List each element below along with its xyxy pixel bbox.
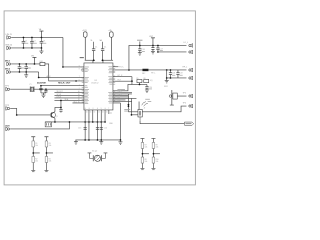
wire HP lower to jack xyxy=(167,77,187,79)
wire U1 right INT xyxy=(113,97,137,99)
capacitor C21 xyxy=(151,45,154,51)
oscillator X2 xyxy=(88,153,108,162)
svg-text:C1: C1 xyxy=(25,41,27,43)
capacitor C4 xyxy=(18,64,22,72)
pin stub U1 right HP xyxy=(113,69,143,71)
resistor chain R9 xyxy=(151,138,160,169)
wire J6 to Q1 base xyxy=(10,108,50,115)
junction dot HP corner xyxy=(128,69,130,71)
wire net LINEIN_R xyxy=(11,47,41,49)
svg-text:FILT+: FILT+ xyxy=(119,66,124,68)
svg-text:AIN2: AIN2 xyxy=(46,75,50,78)
ferrite bead FB1 xyxy=(40,62,45,65)
svg-text:C3: C3 xyxy=(43,41,45,43)
wire SDA xyxy=(54,99,83,101)
label bottom pin 7 xyxy=(110,112,112,115)
svg-text:0.1: 0.1 xyxy=(95,47,98,49)
pin stub U1 top VD xyxy=(92,60,94,63)
wire MICIN2 corner to IC xyxy=(39,72,81,78)
label VQREF xyxy=(117,88,125,91)
wire RST to header top xyxy=(138,101,140,109)
svg-text:0.1: 0.1 xyxy=(104,47,107,49)
svg-text:10k: 10k xyxy=(35,145,38,147)
svg-text:HP_L: HP_L xyxy=(151,73,156,75)
svg-text:SDOUT: SDOUT xyxy=(56,91,63,93)
svg-text:C2: C2 xyxy=(33,41,35,43)
wire J14 below stub xyxy=(139,117,141,121)
svg-text:40: 40 xyxy=(78,91,80,93)
wire hooks header top xyxy=(142,102,148,107)
svg-text:24.576M: 24.576M xyxy=(37,82,46,85)
capacitor C14 xyxy=(96,128,99,130)
svg-text:GND: GND xyxy=(109,123,114,125)
wire J14 out xyxy=(142,106,186,112)
connector J9 xyxy=(189,50,193,54)
svg-text:HP_R: HP_R xyxy=(117,75,122,77)
wire SDIN xyxy=(54,91,83,93)
svg-text:LRCK: LRCK xyxy=(56,96,62,98)
junction dot C10 xyxy=(93,59,95,61)
pin stub U1 right HPB xyxy=(113,76,132,78)
connector J12 xyxy=(189,104,193,108)
svg-text:+3V3: +3V3 xyxy=(82,30,86,32)
wire SCL stub xyxy=(72,102,84,104)
label net header in xyxy=(124,108,130,111)
junction dot XTI xyxy=(40,85,42,87)
resistor chain R1 xyxy=(31,137,40,172)
wire net MICIN2 xyxy=(11,71,39,73)
wire HP mid down xyxy=(166,70,168,78)
wire U1 right SPB+ xyxy=(113,94,129,96)
svg-text:LO_L: LO_L xyxy=(183,42,188,44)
svg-text:VM: VM xyxy=(31,55,34,57)
junction dot XTO xyxy=(45,88,47,90)
junction dots C18 xyxy=(170,69,172,71)
power flag MICBIAS xyxy=(32,57,36,64)
svg-text:LIN J1: LIN J1 xyxy=(6,34,13,36)
pin stub U1 bottom 7 xyxy=(108,110,110,114)
svg-text:10k: 10k xyxy=(48,161,51,163)
label hooks xyxy=(145,98,150,101)
label pin 33 xyxy=(80,57,84,58)
connector J13 xyxy=(189,94,193,98)
junction dot C17 top xyxy=(157,45,159,47)
ground C21 xyxy=(151,51,155,54)
pin stub U1 left 6 xyxy=(81,88,84,90)
sheet frame xyxy=(4,11,195,185)
capacitor C20 xyxy=(145,84,148,90)
pin names U1 left inner xyxy=(85,67,89,104)
pin stubs U1 right NC group xyxy=(113,68,115,84)
wire J7 xyxy=(10,122,69,129)
pin numbers U1 bottom xyxy=(86,111,108,114)
ground HP xyxy=(165,78,169,83)
wire VD rail xyxy=(85,59,95,61)
transistor Q1 xyxy=(50,112,55,119)
svg-text:7: 7 xyxy=(79,76,80,78)
capacitor C5 xyxy=(24,64,28,72)
junction dot cluster xyxy=(131,80,133,82)
svg-text:T: T xyxy=(108,108,109,110)
capacitor C16 xyxy=(138,45,141,52)
connector J14 header xyxy=(138,109,142,117)
wire ground rail xyxy=(75,139,120,141)
capacitor C6 xyxy=(39,86,42,93)
svg-text:10k: 10k xyxy=(35,161,38,163)
capacitor C18 xyxy=(169,70,172,78)
connector J7 xyxy=(6,127,10,131)
svg-text:V: V xyxy=(101,108,102,110)
pin stub U1 left 1 xyxy=(81,66,84,68)
junction dots C1 xyxy=(23,37,25,39)
junction dot corner AIN xyxy=(62,66,64,68)
junction dot base wire xyxy=(16,114,18,116)
pin stub U1 left 4 xyxy=(81,80,84,82)
capacitor C17 xyxy=(156,45,159,52)
svg-text:CS42L52: CS42L52 xyxy=(91,82,99,84)
svg-text:VL: VL xyxy=(90,40,92,42)
label net flag MUTE xyxy=(185,123,191,124)
wire SCLK xyxy=(54,94,83,96)
svg-text:TP4: TP4 xyxy=(182,103,185,105)
net flag MUTE xyxy=(184,122,193,125)
wire HP right lower xyxy=(158,51,187,53)
wire cluster drop xyxy=(132,77,147,85)
pin numbers U1 right column xyxy=(114,66,116,101)
svg-text:AUX: AUX xyxy=(5,124,10,127)
ground right drop xyxy=(118,140,122,144)
junction dot MICBIAS xyxy=(34,63,36,65)
svg-text:36: 36 xyxy=(78,99,80,101)
svg-text:1: 1 xyxy=(79,84,80,86)
capacitor C13 xyxy=(84,128,87,130)
capacitor C7 xyxy=(44,89,47,93)
wire GND drop right xyxy=(119,103,121,140)
pin stubs U1 left NC group xyxy=(82,68,84,102)
svg-text:38: 38 xyxy=(78,94,80,96)
wire corner SDOUT down xyxy=(128,94,138,112)
junction dot HP mid low xyxy=(166,77,168,79)
junction dot collector net xyxy=(60,100,62,102)
ground below C3 xyxy=(39,48,43,54)
power flag P4 VA xyxy=(110,32,114,60)
connector J1 LINEIN_L xyxy=(7,36,11,40)
wire U1 right SPA- xyxy=(113,93,132,95)
ferrite bead FB2 xyxy=(142,69,148,71)
svg-text:9: 9 xyxy=(79,66,80,68)
power flag P5 xyxy=(151,38,155,46)
pin names U1 right inner xyxy=(108,66,112,103)
junction dot chain R7 xyxy=(142,153,144,155)
svg-text:C19: C19 xyxy=(179,73,182,75)
resistor R6 xyxy=(144,79,149,82)
resistor chain R3 xyxy=(44,137,53,172)
junction dots ground rail xyxy=(84,139,86,141)
capacitor C1 xyxy=(22,37,26,48)
connector J3 MICIN1 xyxy=(7,62,11,66)
wire crystal to caps xyxy=(34,88,81,90)
junction dot corner SDOUT a xyxy=(128,104,130,106)
junction dot MCLK wire xyxy=(75,80,77,82)
junction dot MICIN2 corner xyxy=(38,77,40,79)
connector J4 MICIN2 xyxy=(7,70,11,74)
label cap values row2 xyxy=(21,43,183,89)
svg-text:C15: C15 xyxy=(104,128,107,130)
junction dot R5 tap xyxy=(139,84,141,86)
capacitor C3 xyxy=(40,37,44,48)
ground rail left xyxy=(74,140,78,144)
pin stub U1 bottom 2 xyxy=(88,110,90,140)
junction dot chain R1 xyxy=(32,152,34,154)
wire net MICIN1 xyxy=(11,63,40,65)
svg-text:SCL: SCL xyxy=(73,101,77,103)
capacitor C12 xyxy=(59,107,62,112)
wire FB1 to corner xyxy=(45,64,81,81)
svg-text:V: V xyxy=(92,108,93,110)
wire U1 right VQREF xyxy=(113,84,132,90)
switch SW1 xyxy=(169,90,177,105)
wire HP feedback corner xyxy=(129,45,187,69)
svg-text:J2: J2 xyxy=(143,108,145,110)
connector J10 xyxy=(189,68,193,72)
wire U1 right SPB- xyxy=(113,96,129,98)
connector J2 LINEIN_R xyxy=(7,46,11,50)
connector J8 xyxy=(189,44,193,48)
net flag stub C16 xyxy=(139,41,141,45)
connector J11 xyxy=(189,76,193,80)
svg-text:C16: C16 xyxy=(141,49,144,51)
ground below C5 xyxy=(24,72,28,77)
svg-text:10k: 10k xyxy=(144,147,147,149)
junction dot GND drop xyxy=(120,139,122,141)
junction dot chain R9 xyxy=(153,153,155,155)
pin stub U1 right FLT xyxy=(113,66,119,68)
svg-text:SW1: SW1 xyxy=(164,86,168,88)
junction dot chain R3 xyxy=(46,152,48,154)
junction dot C11 xyxy=(102,59,104,61)
junction dot pin3 rail xyxy=(92,121,94,123)
svg-text:C17: C17 xyxy=(160,48,163,50)
wire corner INT down xyxy=(131,98,138,114)
pin stub U1 top VA xyxy=(102,60,104,63)
svg-text:37: 37 xyxy=(78,97,80,99)
svg-text:TP5: TP5 xyxy=(182,93,185,95)
junction dot C17 bottom xyxy=(157,51,159,53)
wire collector up xyxy=(60,100,62,107)
pin names U1 bottom inner xyxy=(84,108,109,110)
svg-text:R5: R5 xyxy=(136,78,138,80)
pin numbers U1 left xyxy=(78,66,80,104)
wire net LINEIN_L xyxy=(11,36,63,38)
capacitor C15 xyxy=(100,128,103,130)
wire U1 right SPA+ xyxy=(113,91,132,93)
junction dot corner SDOUT b xyxy=(128,105,130,107)
svg-text:Q1: Q1 xyxy=(55,116,57,118)
pin stub U1 bottom 3 xyxy=(92,110,94,122)
pin stub U1 left 3 xyxy=(81,76,84,78)
junction dot HP mid xyxy=(166,69,168,71)
junction dots C3 xyxy=(41,37,43,39)
crystal Y1 xyxy=(30,86,34,92)
junction dot C12 xyxy=(60,107,62,109)
svg-text:2: 2 xyxy=(79,88,80,90)
svg-text:10k: 10k xyxy=(155,147,158,149)
ground C20 xyxy=(145,90,149,93)
ground C16 xyxy=(138,53,142,56)
wire header stub to flag xyxy=(140,121,184,124)
pin stub U1 left 5 xyxy=(81,85,84,87)
svg-text:35: 35 xyxy=(78,102,80,104)
pin stub U1 bottom 5 xyxy=(100,110,102,140)
junction dots rail VQ xyxy=(54,121,56,123)
junction dot P5 xyxy=(152,45,154,47)
svg-text:10k: 10k xyxy=(155,161,158,163)
wire R5 tap xyxy=(138,83,140,85)
svg-text:MIC2: MIC2 xyxy=(5,68,11,70)
junction dot corner INT xyxy=(131,114,133,116)
svg-text:R6: R6 xyxy=(143,78,145,80)
power flag P3 VD xyxy=(83,32,87,60)
connector J6 xyxy=(6,107,10,111)
svg-text:C18: C18 xyxy=(172,73,175,75)
wire LRCK xyxy=(54,97,83,99)
capacitor C19 xyxy=(176,70,179,78)
junction dots C5 xyxy=(25,63,27,65)
wire SW1 to J13 xyxy=(177,95,186,97)
pin stub U1 right VQ xyxy=(113,80,132,82)
svg-text:MCLK_OUT: MCLK_OUT xyxy=(58,82,71,84)
pin stub U1 bottom 6 xyxy=(104,110,106,122)
svg-text:C20: C20 xyxy=(149,87,152,89)
junction dot pin6 rail xyxy=(104,121,106,123)
svg-text:OUT+: OUT+ xyxy=(117,91,122,93)
wire U1 right RST xyxy=(113,100,132,102)
svg-text:X2 opt: X2 opt xyxy=(92,150,98,153)
power flag VA xyxy=(39,31,43,37)
wire Q1 emitter xyxy=(54,118,56,122)
svg-text:FB2: FB2 xyxy=(142,73,145,75)
svg-text:FB1: FB1 xyxy=(40,61,43,63)
svg-text:8: 8 xyxy=(79,69,80,71)
wire Q1 collector xyxy=(55,107,61,111)
wire XTI xyxy=(41,85,81,87)
svg-text:HP_L: HP_L xyxy=(182,67,187,69)
capacitor C2 xyxy=(30,37,34,48)
label net flag C16 xyxy=(137,39,142,42)
junction dots C4 xyxy=(19,63,21,65)
wire U1 right AD0 xyxy=(113,99,126,101)
svg-text:10k: 10k xyxy=(144,161,147,163)
capacitor C11 xyxy=(101,42,104,61)
wire bead to jack xyxy=(148,69,186,71)
wire rail VQ xyxy=(45,121,105,123)
wire cap ground rail xyxy=(41,92,46,94)
junction dot C16 xyxy=(139,45,141,47)
svg-text:C13: C13 xyxy=(78,128,81,130)
pin stub U1 bottom 4 xyxy=(96,110,98,140)
svg-text:10k: 10k xyxy=(48,145,51,147)
pin stub U1 left 2 xyxy=(81,69,84,71)
pin stub U1 bottom 1 xyxy=(84,110,86,140)
svg-text:MIC1: MIC1 xyxy=(5,60,11,62)
junction dots C2 xyxy=(31,37,33,39)
ground rail mid xyxy=(99,140,103,144)
jumper JP1 xyxy=(45,122,51,127)
svg-text:OUT-: OUT- xyxy=(117,94,122,96)
svg-text:Y1: Y1 xyxy=(29,84,31,86)
svg-text:6: 6 xyxy=(79,80,80,82)
wire corner to IC pin AIN xyxy=(63,37,81,66)
op-amp codec IC U1 xyxy=(84,63,113,110)
wire U1 right GND xyxy=(113,102,121,104)
wire VA rail xyxy=(101,59,113,61)
resistor chain R7 xyxy=(140,138,149,169)
wire to crystal xyxy=(10,88,30,90)
resistor R5 xyxy=(137,79,142,82)
connector J5 XTAL TP xyxy=(6,87,10,91)
svg-text:RIN J2: RIN J2 xyxy=(6,44,13,46)
capacitor C10 xyxy=(92,42,95,61)
ground crystal xyxy=(41,93,45,98)
